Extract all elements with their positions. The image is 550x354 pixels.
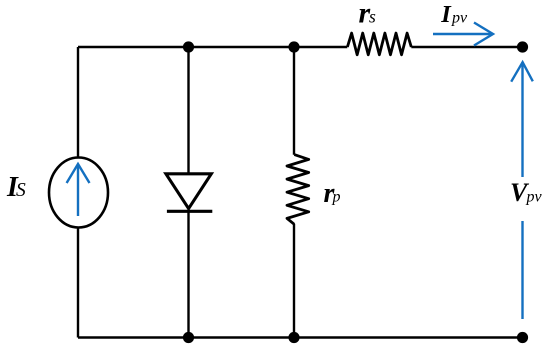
svg-text:s: s <box>369 7 376 27</box>
svg-text:S: S <box>16 180 26 201</box>
svg-text:pv: pv <box>451 9 468 26</box>
svg-text:I: I <box>440 1 452 28</box>
svg-text:pv: pv <box>526 188 543 205</box>
svg-text:p: p <box>332 188 341 205</box>
